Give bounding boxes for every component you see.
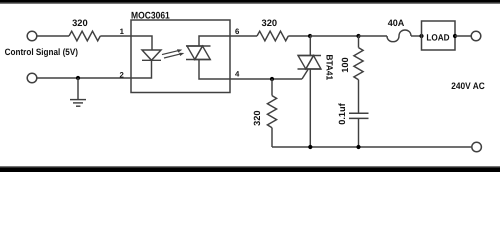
- wire U1 pin2 internal: [131, 60, 152, 78]
- terminal T4 (neutral): [472, 142, 482, 152]
- wire LOAD to T3: [455, 35, 471, 37]
- terminal T3 (line): [471, 31, 481, 41]
- terminal T1 (control signal +): [27, 31, 37, 41]
- wire U1 pin1 internal: [131, 36, 152, 50]
- svg-text:240V AC: 240V AC: [451, 80, 485, 91]
- resistor R3 320 vertical: [267, 96, 276, 128]
- bottom border bar: [0, 166, 500, 172]
- svg-text:MOC3061: MOC3061: [131, 11, 170, 22]
- svg-text:1: 1: [120, 27, 125, 36]
- svg-text:4: 4: [235, 69, 240, 78]
- svg-text:320: 320: [262, 18, 278, 28]
- node A (triac MT2): [308, 34, 312, 38]
- wire C1 to bottom rail: [358, 118, 360, 147]
- capacitor C1: [349, 113, 369, 118]
- wire fuse to LOAD: [411, 35, 422, 37]
- node C (load left): [419, 34, 423, 38]
- fuse F1: [387, 30, 411, 42]
- node E (gate / R3): [270, 77, 274, 81]
- wire node E to R3: [271, 79, 273, 96]
- wire node B down to R4: [358, 36, 360, 48]
- ground: [70, 100, 86, 107]
- svg-text:0.1uf: 0.1uf: [337, 102, 347, 125]
- wire to ground: [77, 78, 79, 100]
- junction ground node: [76, 76, 80, 80]
- svg-text:320: 320: [72, 18, 88, 28]
- wire pin4 to gate: [230, 78, 302, 80]
- wire R3 to bottom rail: [271, 128, 273, 147]
- wire pin6 to R2: [230, 35, 257, 37]
- svg-text:6: 6: [235, 27, 240, 36]
- node D (load right): [453, 34, 457, 38]
- wire node B to fuse: [359, 35, 388, 37]
- gate lead diagonal: [302, 70, 308, 80]
- svg-text:40A: 40A: [388, 18, 405, 28]
- wire T2 to U1 pin2: [37, 77, 131, 79]
- op-isolator U1 MOC3061 box: [131, 20, 230, 93]
- triac Q1 BTA41: [298, 56, 322, 70]
- resistor R4 100: [354, 48, 363, 80]
- svg-text:Control Signal (5V): Control Signal (5V): [5, 47, 78, 57]
- wire triac MT1 to bottom rail: [309, 69, 311, 147]
- wire R4 to C1: [358, 80, 360, 114]
- wire node A to node B: [310, 35, 359, 37]
- resistor R2 320: [257, 31, 288, 41]
- top border bar: [0, 0, 500, 4]
- wire T1 to R1: [37, 35, 69, 37]
- wire U1 pin6 internal: [199, 36, 230, 46]
- wire U1 pin4 internal: [199, 60, 230, 80]
- svg-text:320: 320: [252, 111, 262, 126]
- wire node A down to triac: [309, 36, 311, 56]
- wire R2 to node A: [288, 35, 310, 37]
- node G (C1 on rail): [356, 145, 360, 149]
- LED D1 inside U1: [142, 50, 161, 60]
- photo-triac inside U1: [186, 46, 211, 60]
- terminal T2 (control signal -): [27, 73, 37, 83]
- resistor R1 320: [69, 31, 100, 41]
- LOAD box: [422, 21, 456, 50]
- svg-text:LOAD: LOAD: [426, 33, 450, 43]
- light arrows: [162, 49, 184, 58]
- bottom rail wire: [272, 146, 471, 148]
- node B (snubber top): [356, 34, 360, 38]
- svg-text:BTA41: BTA41: [324, 55, 334, 81]
- svg-text:100: 100: [340, 57, 350, 72]
- svg-text:2: 2: [119, 70, 124, 79]
- node F (triac MT1 on rail): [308, 145, 312, 149]
- wire R1 to U1 pin1: [100, 35, 131, 37]
